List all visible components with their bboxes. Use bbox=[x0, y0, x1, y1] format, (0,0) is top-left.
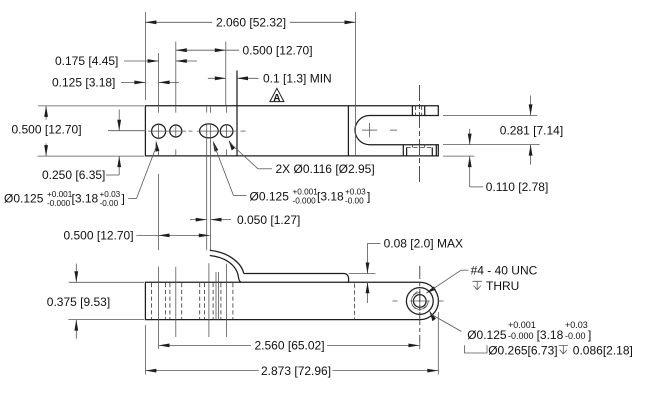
hole vertical center ticks bbox=[159, 123, 227, 139]
svg-text:0.500 [12.70]: 0.500 [12.70] bbox=[243, 43, 313, 57]
svg-text:Ø0.265[6.73]: Ø0.265[6.73] bbox=[488, 343, 557, 357]
callout O0.125 left bbox=[4, 190, 125, 208]
svg-text:2.060 [52.32]: 2.060 [52.32] bbox=[216, 15, 286, 29]
side view hole centerlines bbox=[159, 263, 227, 349]
svg-text:-0.00: -0.00 bbox=[100, 199, 119, 208]
side view outline bbox=[145, 282, 438, 319]
svg-text:+0.03: +0.03 bbox=[100, 190, 121, 199]
thread arc bbox=[411, 293, 428, 310]
svg-text:+0.03: +0.03 bbox=[565, 320, 588, 330]
hole 4 (O0.116) bbox=[220, 125, 233, 138]
dim 0.1 [1.3] MIN bbox=[208, 72, 332, 86]
pocket right edge line bbox=[347, 106, 349, 156]
dim 0.500 [12.70] bottom bbox=[64, 174, 210, 250]
svg-text:+0.001: +0.001 bbox=[47, 190, 73, 199]
tapped hole centerlines chain bbox=[419, 266, 421, 342]
svg-text:[3.18: [3.18 bbox=[317, 189, 344, 203]
callout counterbore line bbox=[465, 343, 633, 357]
leader O0.125 clevis callout bbox=[429, 311, 461, 332]
dim 0.500 [12.70] top bbox=[176, 42, 313, 106]
leader hole1 callout bbox=[128, 141, 159, 199]
side view hidden hole lines bbox=[152, 283, 233, 319]
holes horizontal centerline chain bbox=[108, 130, 246, 132]
svg-text:THRU: THRU bbox=[486, 279, 519, 293]
svg-text:0.500 [12.70]: 0.500 [12.70] bbox=[12, 123, 82, 137]
svg-text:-0.000: -0.000 bbox=[47, 199, 71, 208]
svg-text:2.560 [65.02]: 2.560 [65.02] bbox=[255, 339, 325, 353]
svg-text:-0.00: -0.00 bbox=[565, 331, 586, 341]
dim 0.250 [6.35] bbox=[42, 110, 121, 183]
svg-text:Ø0.125: Ø0.125 bbox=[4, 192, 44, 206]
svg-text:0.110 [2.78]: 0.110 [2.78] bbox=[486, 180, 549, 194]
tapped hole counterbore circle bbox=[406, 288, 433, 315]
svg-text:-0.00: -0.00 bbox=[345, 197, 364, 206]
slot cut lines from hole 3 bbox=[206, 124, 208, 250]
svg-text:+0.03: +0.03 bbox=[345, 188, 366, 197]
tapped hole crosshair bbox=[410, 291, 430, 311]
leader 2X O0.116 bbox=[229, 140, 375, 176]
svg-text:+0.001: +0.001 bbox=[508, 320, 536, 330]
svg-text:0.125 [3.18]: 0.125 [3.18] bbox=[52, 76, 115, 90]
svg-text:Ø0.125: Ø0.125 bbox=[250, 189, 290, 203]
dim 2.873 [72.96] bbox=[145, 312, 438, 378]
thread hatch bbox=[412, 292, 427, 309]
svg-text:]: ] bbox=[367, 189, 370, 203]
hole 3 (O0.125 with slot) bbox=[200, 124, 219, 138]
hidden edge ticks at hole axes bbox=[159, 107, 227, 156]
hidden line slot depth side view bbox=[354, 284, 356, 320]
dim 0.125 [3.18] bbox=[52, 76, 179, 90]
svg-text:0.1 [1.3] MIN: 0.1 [1.3] MIN bbox=[263, 72, 332, 86]
dim 0.281 [7.14] bbox=[443, 96, 563, 165]
svg-text:]: ] bbox=[122, 192, 125, 206]
gage pad top bbox=[244, 274, 349, 283]
svg-text:0.08 [2.0] MAX: 0.08 [2.0] MAX bbox=[384, 237, 463, 251]
svg-text:0.375 [9.53]: 0.375 [9.53] bbox=[47, 295, 110, 309]
flexure blade lower curve bbox=[210, 256, 241, 283]
svg-text:[3.18: [3.18 bbox=[537, 328, 564, 342]
callout O0.125 center bbox=[250, 188, 371, 206]
svg-text:[3.18: [3.18 bbox=[72, 192, 99, 206]
clevis pin hole marks top prong bbox=[412, 106, 424, 116]
svg-text:]: ] bbox=[588, 328, 591, 342]
dim 0.500 [12.70] left vertical bbox=[12, 106, 145, 156]
dim 0.050 [1.27] bbox=[190, 213, 300, 227]
flexure blade upper curve bbox=[210, 250, 244, 273]
dim 0.08 [2.0] MAX bbox=[349, 237, 463, 303]
svg-text:0.086[2.18]: 0.086[2.18] bbox=[573, 343, 633, 357]
svg-text:Ø0.125: Ø0.125 bbox=[467, 328, 507, 342]
dim 0.110 [2.78] bbox=[443, 129, 548, 194]
svg-text:-0.000: -0.000 bbox=[508, 331, 534, 341]
leader hole3 callout bbox=[213, 141, 247, 196]
dim 2.560 [65.02] bbox=[159, 339, 420, 353]
svg-text:#4 - 40 UNC: #4 - 40 UNC bbox=[471, 263, 538, 277]
svg-text:0.175 [4.45]: 0.175 [4.45] bbox=[55, 54, 118, 68]
callout O0.125 clevis bbox=[467, 320, 591, 342]
svg-text:2.873 [72.96]: 2.873 [72.96] bbox=[261, 364, 331, 378]
svg-text:0.250 [6.35]: 0.250 [6.35] bbox=[42, 168, 105, 182]
hole 1 (O0.125 press fit) bbox=[152, 124, 166, 138]
flag note triangle A bbox=[270, 88, 284, 104]
dim 0.375 [9.53] bbox=[47, 264, 144, 339]
svg-text:+0.001: +0.001 bbox=[293, 188, 319, 197]
svg-text:0.050 [1.27]: 0.050 [1.27] bbox=[237, 213, 300, 227]
clevis counterbore marks bottom prong bbox=[403, 145, 436, 156]
slot center mark bbox=[362, 123, 397, 137]
dim 0.175 [4.45] bbox=[55, 53, 197, 105]
svg-text:2X Ø0.116 [Ø2.95]: 2X Ø0.116 [Ø2.95] bbox=[276, 162, 375, 176]
leader #4-40 UNC bbox=[426, 263, 538, 293]
svg-text:0.281 [7.14]: 0.281 [7.14] bbox=[500, 124, 563, 138]
top view beam outline bbox=[145, 106, 438, 156]
hole 2 (O0.116) bbox=[170, 125, 182, 137]
clevis vertical centerline bbox=[419, 85, 421, 183]
dim 2.060 [52.32] bbox=[145, 12, 355, 156]
pocket left edge line bbox=[236, 71, 238, 156]
tapped hole circle bbox=[413, 295, 426, 308]
svg-text:0.500 [12.70]: 0.500 [12.70] bbox=[64, 229, 134, 243]
svg-text:A: A bbox=[273, 93, 280, 104]
svg-text:-0.000: -0.000 bbox=[293, 197, 317, 206]
